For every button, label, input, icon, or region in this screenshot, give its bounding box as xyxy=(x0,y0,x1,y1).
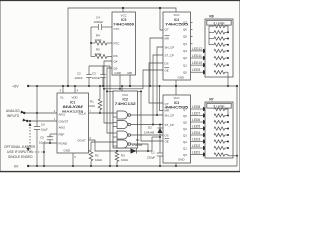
svg-text:CNVST: CNVST xyxy=(59,120,69,124)
resistor network R8 xyxy=(205,14,233,77)
cap top ground link xyxy=(89,65,110,67)
svg-text:IC3: IC3 xyxy=(174,101,179,105)
link wire to D2 bottom xyxy=(152,136,160,138)
IC3 Vcc pin xyxy=(175,86,177,95)
IC1 GND pin xyxy=(72,153,74,166)
svg-text:1000pF: 1000pF xyxy=(94,20,104,24)
IC4 ST_CP wire xyxy=(153,55,163,125)
svg-text:C3: C3 xyxy=(92,72,96,76)
svg-text:R8: R8 xyxy=(209,14,213,18)
svg-text:Q5: Q5 xyxy=(183,35,187,39)
svg-text:LED12: LED12 xyxy=(192,47,202,51)
IC2 Vcc pin xyxy=(121,86,123,91)
svg-text:100nF: 100nF xyxy=(75,76,83,80)
svg-text:LED7: LED7 xyxy=(192,111,200,115)
svg-text:D1: D1 xyxy=(136,138,140,142)
R8 r8 xyxy=(214,71,228,74)
svg-text:Q1: Q1 xyxy=(183,146,187,150)
svg-text:1N4148: 1N4148 xyxy=(132,143,143,147)
LED11 xyxy=(191,54,215,60)
svg-text:GND: GND xyxy=(115,71,121,75)
capacitor C6 xyxy=(34,85,48,167)
svg-text:INPUTS: INPUTS xyxy=(7,114,20,118)
analog input wire AIN1 xyxy=(24,112,57,114)
svg-text:10µF: 10µF xyxy=(41,127,48,131)
R8 r4 xyxy=(209,26,229,46)
LED5 xyxy=(191,124,215,130)
svg-text:SH_CP: SH_CP xyxy=(165,113,175,117)
capacitor C4 xyxy=(91,16,112,30)
IC5 74HC4060 box xyxy=(112,12,136,75)
svg-text:DOUT: DOUT xyxy=(78,138,86,142)
nand gate 4 xyxy=(113,140,131,148)
svg-text:74HC4060: 74HC4060 xyxy=(113,23,134,27)
svg-text:SCLK: SCLK xyxy=(79,112,87,116)
svg-text:RTC: RTC xyxy=(114,41,120,45)
R8 r7 xyxy=(214,63,229,66)
svg-text:Q7: Q7 xyxy=(183,21,187,25)
gate4 input wire from R2 xyxy=(91,141,115,143)
resistor R4 10k xyxy=(91,34,112,45)
svg-text:Q7': Q7' xyxy=(165,102,170,106)
svg-text:LED5: LED5 xyxy=(192,124,200,128)
+5V rail xyxy=(28,85,237,87)
svg-text:Q6: Q6 xyxy=(183,114,187,118)
svg-text:Q2: Q2 xyxy=(183,56,187,60)
LED8 xyxy=(191,105,215,111)
decoupling cap C3 xyxy=(92,66,106,86)
R8 r3 xyxy=(209,37,229,40)
svg-text:1N4148: 1N4148 xyxy=(144,130,155,134)
IC4 DS wire to IC3 Q7' xyxy=(149,63,163,103)
IC3 OE wire xyxy=(141,91,163,141)
svg-text:Q9: Q9 xyxy=(114,66,118,70)
bus wire B xyxy=(107,90,141,92)
R7 common to 0V riser xyxy=(228,155,237,156)
svg-text:OPTIONAL JUMPER: OPTIONAL JUMPER xyxy=(4,145,36,149)
gate3 output to DS line xyxy=(131,134,163,136)
LED2 xyxy=(191,144,215,150)
svg-text:C2: C2 xyxy=(77,72,81,76)
IC1 VDD pin xyxy=(74,86,76,93)
IC2 74HC132 box xyxy=(113,91,138,148)
R7 r3 xyxy=(214,120,229,123)
svg-text:USE IF INPUT IS: USE IF INPUT IS xyxy=(7,150,33,154)
node top rail drop x160 xyxy=(160,8,163,30)
svg-text:R2: R2 xyxy=(95,153,99,157)
svg-text:VCC: VCC xyxy=(173,13,179,17)
svg-text:0V: 0V xyxy=(14,164,19,168)
IC3 MR tie wire xyxy=(160,86,164,111)
svg-text:Q7: Q7 xyxy=(183,107,187,111)
diode D1 1N4148 xyxy=(131,138,143,154)
gate2 output to ST_CP line xyxy=(131,124,163,126)
svg-text:IC5: IC5 xyxy=(121,18,126,22)
IC4 74HC595 box xyxy=(163,12,191,80)
svg-text:R3: R3 xyxy=(121,153,125,157)
svg-text:DS: DS xyxy=(165,133,169,137)
svg-text:ST_CP: ST_CP xyxy=(165,53,174,57)
resistor network R7 xyxy=(205,97,233,158)
DOUT wire xyxy=(89,140,153,151)
svg-text:AIN2: AIN2 xyxy=(59,126,66,130)
svg-text:IC2: IC2 xyxy=(123,97,128,101)
svg-text:LED1: LED1 xyxy=(192,150,200,154)
svg-text:Q0: Q0 xyxy=(183,70,187,74)
analog input wire AIN2 xyxy=(27,120,57,122)
svg-text:LED3: LED3 xyxy=(192,137,200,141)
svg-text:Q7': Q7' xyxy=(165,28,170,32)
svg-text:IC4: IC4 xyxy=(174,18,179,22)
top Vcc rail xyxy=(68,8,176,86)
svg-text:Q3: Q3 xyxy=(183,133,187,137)
capacitor C5 xyxy=(39,134,57,145)
svg-text:GND: GND xyxy=(178,75,184,79)
svg-text:GND: GND xyxy=(178,157,184,161)
R7 r5 xyxy=(214,133,229,136)
IC1 MAX1276 box xyxy=(54,93,92,159)
IC4 OE wire xyxy=(143,70,163,89)
optional jumper dashed xyxy=(29,123,46,154)
svg-text:Q3: Q3 xyxy=(183,49,187,53)
svg-text:220pF: 220pF xyxy=(147,156,155,160)
R7 r4 xyxy=(214,127,229,130)
R7 r6 xyxy=(214,140,229,143)
svg-text:MR: MR xyxy=(165,36,170,40)
IC5 Q4 wire xyxy=(104,61,113,123)
LED9 xyxy=(191,68,215,74)
svg-text:100nF: 100nF xyxy=(92,76,100,80)
R7 r1 xyxy=(214,107,228,115)
IC4 Q7..Q4 stubs xyxy=(191,21,193,23)
svg-text:Q0: Q0 xyxy=(183,153,187,157)
svg-text:Q1: Q1 xyxy=(183,63,187,67)
R8 r5 xyxy=(214,49,229,52)
svg-text:R7: R7 xyxy=(209,97,213,101)
svg-text:LED2: LED2 xyxy=(192,144,200,148)
svg-text:10µF: 10µF xyxy=(39,141,46,145)
svg-text:Q4: Q4 xyxy=(183,127,187,131)
R8 common down to rail xyxy=(227,72,229,86)
svg-text:OE: OE xyxy=(165,139,169,143)
svg-text:LED6: LED6 xyxy=(192,118,200,122)
IC4 GND pin xyxy=(175,80,177,86)
svg-text:10kΩ: 10kΩ xyxy=(88,104,96,108)
ANALOG INPUTS label xyxy=(6,109,27,122)
svg-text:RGND: RGND xyxy=(59,141,68,145)
node top rail to IC5 Vcc xyxy=(122,8,124,12)
capacitor C1 220pF xyxy=(147,137,163,167)
nand gate 2 xyxy=(113,121,131,129)
diode D2 1N4148 xyxy=(144,125,163,139)
resistor R5 22k xyxy=(91,48,112,59)
svg-text:LED11: LED11 xyxy=(192,54,202,58)
svg-text:D2: D2 xyxy=(148,125,152,129)
svg-text:Q4: Q4 xyxy=(114,59,118,63)
bus wire A xyxy=(104,88,143,90)
LED1 xyxy=(191,150,215,156)
svg-text:Q6: Q6 xyxy=(183,28,187,32)
svg-text:+5V: +5V xyxy=(12,85,19,89)
R7 r8 xyxy=(214,153,228,156)
IC3 74HC595 box xyxy=(163,95,191,163)
LED12 xyxy=(191,47,215,53)
nand gate 1 xyxy=(113,111,131,119)
resistor R3 10k xyxy=(115,150,128,167)
resistor R2 10k xyxy=(89,142,102,167)
svg-text:VL: VL xyxy=(60,95,64,99)
frame border xyxy=(1,1,240,172)
svg-text:10kΩ: 10kΩ xyxy=(121,158,129,162)
svg-text:C6: C6 xyxy=(41,123,45,127)
R8 r2 xyxy=(209,31,229,34)
svg-text:LED4: LED4 xyxy=(192,131,200,135)
svg-text:CTC: CTC xyxy=(114,27,120,31)
right 0V riser xyxy=(236,86,238,166)
+5V terminal xyxy=(27,85,29,87)
svg-text:SINGLE ENDED: SINGLE ENDED xyxy=(8,155,33,159)
svg-text:LED10: LED10 xyxy=(192,61,202,65)
svg-text:REF: REF xyxy=(59,132,65,136)
svg-text:Q5: Q5 xyxy=(183,120,187,124)
LED4 xyxy=(191,131,215,137)
svg-text:C5: C5 xyxy=(40,136,44,140)
resistor R1 10k pull-up xyxy=(88,85,102,114)
svg-text:C1: C1 xyxy=(151,150,155,154)
svg-text:Q4: Q4 xyxy=(183,42,187,46)
long ground drop xyxy=(109,66,111,166)
svg-text:74HC132: 74HC132 xyxy=(115,102,136,106)
svg-text:LED9: LED9 xyxy=(192,68,200,72)
svg-text:ΜΑΧΙΜ: ΜΑΧΙΜ xyxy=(63,104,84,109)
LED10 xyxy=(191,61,215,67)
svg-text:LED8: LED8 xyxy=(192,105,200,109)
optional jumper text xyxy=(4,145,36,159)
svg-text:AIN1: AIN1 xyxy=(59,113,66,117)
svg-text:MR: MR xyxy=(165,108,170,112)
svg-text:SH_CP: SH_CP xyxy=(165,45,175,49)
svg-text:GND: GND xyxy=(64,148,70,152)
svg-text:ANALOG: ANALOG xyxy=(6,109,20,113)
R7 r7 xyxy=(214,146,229,149)
IC5 MR pin xyxy=(129,75,131,86)
svg-text:10kΩ: 10kΩ xyxy=(95,158,103,162)
IC5 Q9 wire xyxy=(107,68,113,133)
oscillator left join wire xyxy=(90,27,92,57)
gate1 output to SH_CP line xyxy=(131,114,163,116)
svg-text:R1: R1 xyxy=(90,100,94,104)
svg-text:C4: C4 xyxy=(96,16,100,20)
SCLK wire xyxy=(89,112,114,114)
IC4 MR wire xyxy=(150,38,163,86)
svg-text:R4: R4 xyxy=(96,34,100,38)
LED7 xyxy=(191,111,215,117)
R8 r6 xyxy=(214,56,229,59)
svg-text:RS: RS xyxy=(114,54,118,58)
svg-text:MR: MR xyxy=(128,71,133,75)
svg-text:VDD: VDD xyxy=(72,95,78,99)
svg-text:ST_CP: ST_CP xyxy=(165,123,174,127)
IC5 GND pin xyxy=(119,75,121,89)
LED3 xyxy=(191,137,215,143)
IC4 SH_CP wire xyxy=(157,47,163,115)
D1 output riser xyxy=(151,137,153,151)
svg-text:R5: R5 xyxy=(96,48,100,52)
svg-text:Q2: Q2 xyxy=(183,140,187,144)
0V bottom rail xyxy=(28,165,237,167)
svg-text:DS: DS xyxy=(165,61,169,65)
IC1 VL pin xyxy=(62,86,64,93)
svg-text:OE: OE xyxy=(165,68,169,72)
LED6 xyxy=(191,118,215,124)
decoupling cap C2 xyxy=(75,66,92,86)
0V terminal xyxy=(27,165,29,167)
RGND wire xyxy=(44,143,57,166)
nand gate 3 xyxy=(113,131,131,139)
R7 r2 xyxy=(214,114,229,117)
gate4 output drop xyxy=(131,144,148,151)
R8 r1 xyxy=(209,24,228,32)
IC3 GND pin xyxy=(175,163,177,166)
